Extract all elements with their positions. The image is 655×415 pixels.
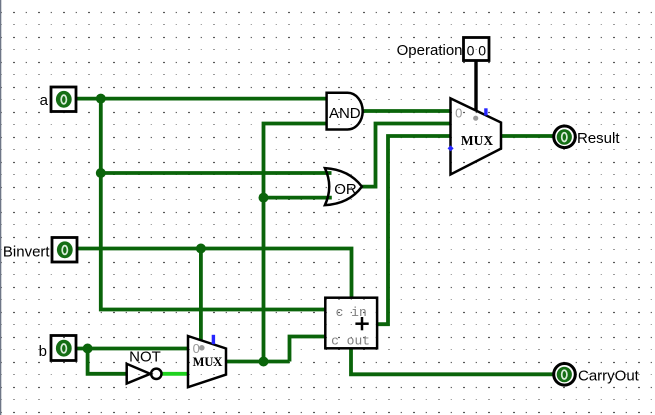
svg-text:0: 0 [455,106,462,121]
mux MUX (result select, Operation) [448,98,501,174]
wire Operation 2-bit bus to MUX1 select [474,61,477,111]
output pin Result [554,126,621,148]
wire OR output up to MUX1 input 1 [362,124,451,187]
junction a / OR [96,168,106,178]
junction Binvert / MUX2 select [196,244,206,254]
svg-text:OR: OR [334,181,357,198]
wire b-mux vertical up then right to AND input 2 [264,124,327,362]
svg-text:Binvert: Binvert [3,244,51,261]
wire b-mux branch to OR input 2 [264,196,332,200]
NOT gate [127,349,162,384]
wire MUX2 output horizontal [226,360,290,364]
wire Binvert horizontal then down to adder carry-in [77,249,352,298]
svg-text:0 0: 0 0 [467,42,487,58]
input pin Operation (2-bit) [397,38,489,61]
junction b-mux / OR [259,193,269,203]
wire Binvert branch down to MUX2 select [199,249,203,341]
adder (+, c in / c out) [325,298,377,349]
svg-text:c out: c out [331,334,370,349]
junction MUX2 output [259,357,269,367]
OR gate [325,168,362,205]
svg-text:CarryOut: CarryOut [578,367,640,384]
svg-text:Operation: Operation [397,42,463,59]
svg-text:Result: Result [577,130,620,147]
wire adder output up to MUX1 input 2 [377,136,451,324]
svg-text:AND: AND [329,105,361,122]
input pin b [39,336,76,361]
input pin Binvert [3,238,77,263]
svg-text:MUX: MUX [193,355,223,369]
wire a vertical branch down then right to adder input a [101,99,325,310]
output pin CarryOut [554,364,640,386]
svg-text:NOT: NOT [129,349,161,366]
svg-text:a: a [40,92,49,109]
wire AND output to MUX1 input 0 [363,109,451,113]
svg-text:MUX: MUX [461,133,493,148]
svg-text:0: 0 [193,341,200,356]
wire MUX1 output to Result pin [501,134,553,138]
svg-text:b: b [39,343,47,360]
input pin a [40,87,76,112]
AND gate [327,93,363,130]
wire a branch to OR input 1 [101,171,332,175]
mux MUX (b / not-b select, Binvert) [188,335,226,387]
junction a / AND [96,94,106,104]
wire b horizontal to MUX2 input 0 [76,347,188,351]
wire adder carry-out down then right to CarryOut pin [351,348,553,374]
wire b branch down to NOT input [88,349,127,374]
wire NOT output to MUX2 input 1 (logic high) [162,372,188,376]
junction b / NOT [83,344,93,354]
wire b-mux up then right to adder input b [290,337,326,362]
wire a horizontal to AND input 1 [76,97,327,101]
